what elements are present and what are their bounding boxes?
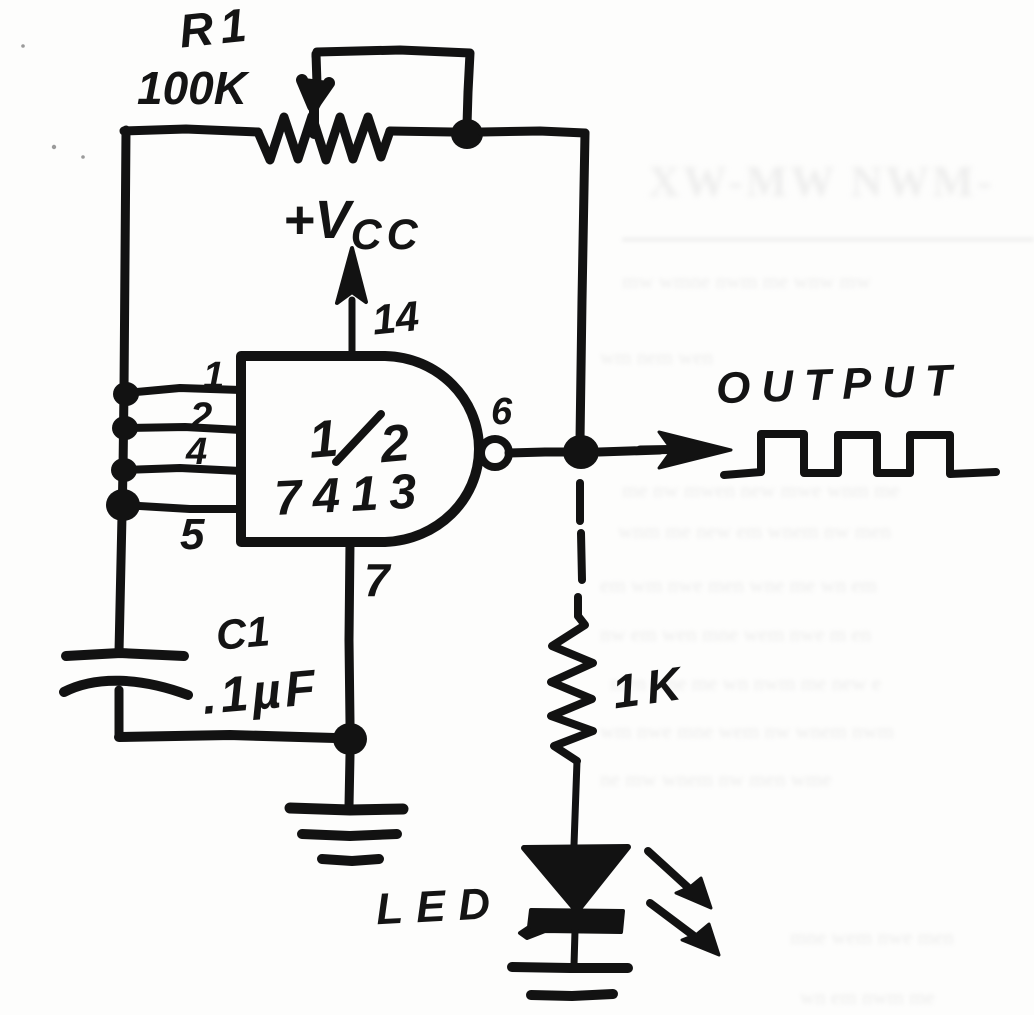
node input junction B — [112, 416, 138, 440]
svg-text:wm nwe mne wem nw wnem nwm: wm nwe mne wem nw wnem nwm — [600, 719, 894, 743]
capacitor C1 top plate — [66, 653, 184, 656]
svg-text:7413: 7413 — [273, 464, 429, 526]
svg-text:wm nem wen: wm nem wen — [600, 345, 714, 369]
svg-text:100K: 100K — [137, 62, 250, 114]
wire 1K to LED — [574, 761, 577, 845]
svg-text:ne mw wnem nw men wme: ne mw wnem nw men wme — [600, 767, 832, 791]
resistor 1K — [551, 616, 593, 761]
power arrow +VCC pin 14 — [349, 300, 356, 356]
ground main — [290, 808, 403, 810]
node bottom junction — [333, 723, 367, 755]
ground under LED — [512, 967, 628, 968]
node input junction A — [113, 382, 139, 406]
wire right vertical — [580, 133, 585, 440]
wire LED to ground — [574, 931, 575, 965]
LED D1 anode triangle — [524, 847, 628, 911]
svg-text:1: 1 — [203, 355, 224, 397]
gate U1 1/2 7413 — [241, 356, 479, 542]
svg-text:em wm nwe men wne me wn em: em wm nwe men wne me wn em — [600, 573, 877, 597]
output arrow — [640, 449, 700, 450]
wire from resistor R1 to node — [390, 131, 452, 132]
svg-text:wn em nwm me: wn em nwm me — [800, 985, 935, 1009]
svg-text:5: 5 — [180, 510, 205, 559]
node input junction C — [111, 458, 137, 482]
svg-text:.1µF: .1µF — [200, 659, 321, 725]
svg-text:LED: LED — [375, 879, 504, 935]
node input junction D — [106, 489, 140, 521]
node R1 wiper junction — [451, 119, 483, 149]
svg-text:R1: R1 — [177, 0, 256, 58]
svg-text:wnm me new em wnem nw men: wnm me new em wnem nw men — [618, 519, 891, 543]
output waveform — [724, 434, 996, 475]
capacitor C1 bottom plate — [64, 681, 188, 695]
LED cathode bar — [520, 910, 623, 938]
wire top right to corner — [482, 131, 585, 133]
svg-text:OUTPUT: OUTPUT — [715, 356, 963, 414]
resistor R1 — [258, 116, 390, 160]
wire input pin 4 — [124, 468, 241, 471]
wire input pin 5 — [123, 505, 241, 509]
wire input pin 2 — [125, 427, 241, 430]
inversion bubble pin 6 — [481, 439, 509, 467]
svg-text:XW-MW NWM-: XW-MW NWM- — [648, 157, 995, 206]
svg-text:mw wmne nwm me wnw mw: mw wmne nwm me wnw mw — [622, 269, 872, 293]
faint bleed-through background (decorative) — [648, 157, 995, 206]
light arrow 1 — [648, 851, 693, 892]
wire top horizontal — [124, 129, 258, 132]
wire output to arrow — [599, 450, 660, 452]
svg-text:4: 4 — [185, 431, 207, 473]
wire output pin 6 to node — [509, 452, 565, 453]
svg-text:mne wem nwe men: mne wem nwe men — [790, 925, 954, 949]
wire cap bottom to corner — [115, 690, 124, 737]
wire junction to ground — [349, 755, 350, 806]
wire bottom horizontal — [119, 735, 335, 738]
svg-text:me nw mwen new mwe wnm me: me nw mwen new mwe wnm me — [622, 478, 900, 502]
wiper arrow of R1 — [316, 54, 317, 84]
wire pin 7 — [349, 542, 350, 723]
svg-text:1K: 1K — [609, 655, 692, 718]
node output junction — [563, 435, 599, 469]
svg-text:nw em wen mne wem nwe m en: nw em wen mne wem nwe m en — [600, 622, 872, 646]
light arrow 2 — [650, 903, 698, 939]
wire wiper loop — [316, 50, 470, 125]
wire input pin 1 — [126, 388, 241, 393]
svg-text:7: 7 — [364, 554, 392, 606]
wire left vertical — [119, 130, 126, 652]
svg-text:C1: C1 — [214, 607, 272, 659]
dashed wire to 1K — [576, 483, 584, 521]
svg-text:6: 6 — [491, 391, 513, 433]
svg-text:14: 14 — [370, 292, 421, 344]
